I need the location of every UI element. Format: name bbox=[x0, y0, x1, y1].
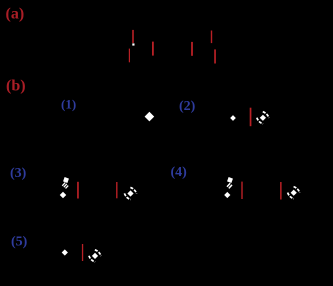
bracket cluster K3 bbox=[88, 249, 102, 263]
white hash slashes D7 bbox=[226, 183, 232, 189]
red bond segment R10 bbox=[241, 182, 242, 199]
svg-text:(5): (5) bbox=[11, 235, 28, 250]
red bond segment R12 bbox=[82, 244, 83, 261]
white square D3 bbox=[63, 177, 69, 183]
red bond segment R6 bbox=[214, 49, 216, 63]
bracket cluster K2 bbox=[287, 186, 301, 200]
red bond segment R4 bbox=[191, 42, 193, 56]
white atom dot under R1 bbox=[132, 43, 134, 45]
red bond segment R7 bbox=[250, 108, 252, 127]
svg-text:(a): (a) bbox=[6, 6, 25, 23]
white diamond D5 bbox=[60, 192, 67, 199]
white diamond D1 bbox=[145, 112, 155, 122]
svg-text:(2): (2) bbox=[179, 99, 196, 114]
red bond segment R5 bbox=[211, 31, 212, 44]
red bond segment R11 bbox=[280, 182, 282, 200]
svg-text:(1): (1) bbox=[61, 97, 76, 112]
white diamond D2 bbox=[230, 115, 236, 121]
bracket cluster K4 bbox=[124, 187, 138, 201]
white square D6 bbox=[227, 177, 233, 183]
white hashed diamond D4 bbox=[62, 182, 69, 189]
red bond segment R2 bbox=[129, 49, 130, 63]
svg-text:(3): (3) bbox=[10, 166, 27, 181]
red bond segment R1 bbox=[132, 30, 134, 43]
svg-text:(b): (b) bbox=[6, 78, 26, 95]
white diamond D8 bbox=[224, 192, 230, 198]
red bond segment R3 bbox=[152, 42, 154, 56]
bracket cluster K1 bbox=[256, 111, 270, 125]
white diamond D9 bbox=[62, 249, 68, 255]
svg-text:(4): (4) bbox=[171, 165, 188, 180]
red bond segment R8 bbox=[77, 182, 79, 199]
red bond segment R9 bbox=[116, 182, 117, 198]
